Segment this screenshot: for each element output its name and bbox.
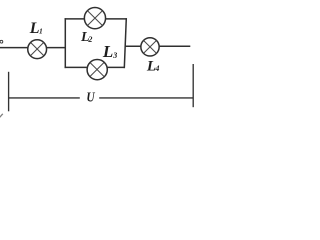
- svg-text:2: 2: [87, 35, 92, 44]
- svg-text:3: 3: [112, 51, 117, 60]
- svg-text:U: U: [86, 89, 95, 104]
- svg-text:4: 4: [154, 64, 159, 73]
- svg-text:1: 1: [39, 26, 43, 35]
- svg-text:L: L: [102, 42, 113, 61]
